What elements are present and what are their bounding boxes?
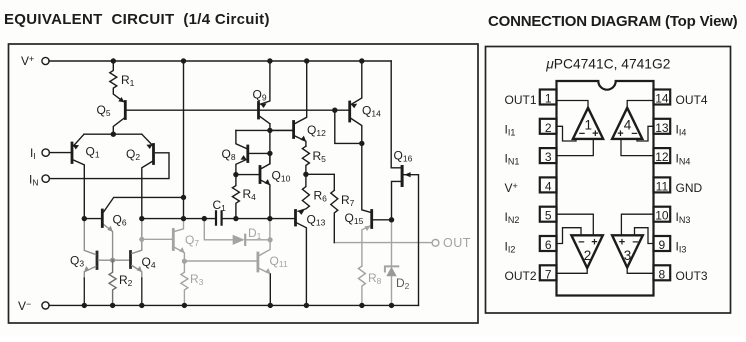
svg-text:R6: R6: [314, 189, 328, 204]
svg-text:OUT3: OUT3: [676, 269, 708, 283]
arrow Q8 emitter (into bar): [241, 155, 247, 160]
resistor R6: [298, 174, 309, 211]
svg-text:IN4: IN4: [676, 152, 691, 167]
svg-text:Q9: Q9: [253, 88, 267, 103]
transistor Q15 emitter (gray): [362, 226, 370, 266]
transistor Q8: [246, 146, 249, 162]
transistor Q10: [259, 167, 262, 183]
node dot D1 tap: [202, 216, 207, 221]
wire Q10 emitter node down: [269, 219, 271, 240]
wire amp1 output to pin1: [557, 101, 588, 108]
svg-text:Q6: Q6: [113, 213, 127, 228]
transistor Q4: [129, 252, 132, 268]
labels left panel: [18, 54, 413, 313]
wire Q15 base node to D2: [391, 220, 393, 267]
svg-text:10: 10: [655, 209, 669, 223]
right panel frame: [486, 47, 731, 314]
svg-text:+: +: [617, 128, 623, 140]
node dot Q8 base: [267, 151, 272, 156]
svg-text:V+: V+: [21, 54, 34, 68]
op-amp 4 triangle: [612, 108, 642, 139]
node dot Q10 emitter on main net: [267, 216, 272, 221]
wire Q11 emitter to rail: [269, 274, 271, 306]
transistor Q6: [101, 210, 104, 227]
wire pin13 to amp4 inverting: [637, 126, 654, 141]
svg-text:Q12: Q12: [307, 123, 326, 138]
svg-text:2: 2: [584, 248, 592, 263]
labels gray: [185, 226, 471, 287]
svg-text:II1: II1: [505, 122, 516, 137]
svg-text:14: 14: [655, 92, 669, 106]
svg-text:R4: R4: [243, 187, 257, 202]
node dot Q7 base tap: [139, 237, 144, 242]
title left: [4, 11, 270, 28]
svg-text:13: 13: [655, 121, 669, 135]
arrow Q9 emitter (into bar): [260, 103, 266, 108]
svg-text:II2: II2: [505, 240, 516, 255]
node dot A: [111, 132, 116, 137]
resistor R8: [358, 266, 365, 305]
transistor Q2: [152, 145, 155, 164]
node dot bias: [332, 108, 337, 113]
wire bias branch: [335, 110, 362, 143]
op-amp polarity signs: [578, 128, 638, 249]
pin 1 box: [540, 90, 557, 105]
wire Q3 emitter to rail: [83, 278, 85, 305]
svg-text:8: 8: [659, 267, 666, 281]
rail junction dots top: [111, 58, 116, 63]
svg-text:OUT2: OUT2: [505, 269, 537, 283]
svg-text:Q16: Q16: [394, 149, 413, 164]
node V- terminal: [42, 302, 49, 309]
resistor R2: [109, 260, 116, 305]
terminal OUT: [432, 239, 439, 246]
svg-text:IN2: IN2: [505, 210, 520, 225]
svg-text:4: 4: [545, 179, 552, 193]
svg-text:2: 2: [545, 121, 552, 135]
IC package body with notch: [557, 81, 654, 296]
svg-text:11: 11: [656, 179, 669, 193]
node dot Q3/Q4 base: [110, 258, 115, 263]
svg-text:−: −: [578, 237, 584, 249]
svg-text:GND: GND: [676, 181, 703, 195]
svg-text:3: 3: [624, 248, 632, 263]
wire pin12 to amp4 non-inverting: [621, 139, 654, 156]
wire pin2 to amp1 inverting: [557, 126, 576, 141]
transistor Q15: [370, 211, 373, 228]
medium-gray faded elements: [84, 220, 142, 305]
wire node A: [84, 133, 142, 135]
svg-text:V−: V−: [18, 299, 31, 313]
wire OUT line: [334, 242, 432, 244]
svg-text:Q4: Q4: [142, 255, 156, 270]
resistor R5: [302, 146, 309, 174]
svg-text:D1: D1: [248, 226, 262, 241]
pin 9 box: [654, 236, 671, 251]
rail junction dots bottom: [82, 303, 87, 308]
arrow Q5 emitter (into bar): [118, 97, 124, 102]
svg-text:OUT: OUT: [443, 236, 471, 250]
diode D1: [204, 219, 232, 240]
svg-text:+: +: [592, 128, 598, 140]
pin 2 box: [540, 119, 557, 134]
wire V+ to x183 column: [183, 61, 185, 219]
svg-text:−: −: [579, 128, 585, 140]
pin 7 box: [540, 265, 557, 280]
svg-text:1: 1: [585, 118, 593, 133]
node dot Q6 collector tap: [181, 195, 186, 200]
svg-text:Q13: Q13: [307, 213, 326, 228]
svg-text:OUT4: OUT4: [676, 93, 708, 107]
svg-text:V+: V+: [505, 181, 518, 195]
terminal IN input: [42, 175, 49, 182]
wire V+ rail: [49, 60, 391, 62]
arrow Q3 emitter (outward): [84, 266, 90, 272]
transistor Q13: [294, 211, 297, 226]
pin 13 box: [654, 119, 671, 134]
transistor Q1: [71, 143, 74, 163]
resistor R3: [181, 261, 188, 305]
svg-text:1: 1: [545, 92, 552, 106]
wire pin3 to amp1 non-inverting: [557, 139, 593, 156]
node V+ terminal: [42, 57, 49, 64]
svg-text:II3: II3: [676, 240, 687, 255]
wire second stage node: [236, 129, 292, 131]
pin labels: [505, 93, 708, 283]
resistor R4: [232, 175, 239, 219]
svg-text:OUT1: OUT1: [505, 93, 537, 107]
gray elements: [139, 219, 439, 306]
wire amp4 output to pin14: [627, 101, 653, 108]
svg-text:R2: R2: [119, 273, 133, 288]
wire pin6 to amp2 inverting: [557, 228, 581, 244]
wire pin9 to amp3 inverting: [635, 228, 654, 244]
op-amp 3 triangle: [612, 235, 643, 267]
svg-text:9: 9: [659, 238, 666, 252]
svg-text:Q10: Q10: [272, 169, 291, 184]
svg-text:CONNECTION DIAGRAM (Top View): CONNECTION DIAGRAM (Top View): [488, 13, 738, 30]
svg-text:12: 12: [655, 150, 669, 164]
transistor Q12: [292, 122, 295, 138]
resistor R7: [331, 190, 338, 242]
zener diode D2: [385, 266, 398, 271]
arrow Q14 emitter (into bar): [351, 104, 357, 109]
svg-text:Q11: Q11: [270, 254, 288, 269]
node dot x183 on main net: [181, 216, 186, 221]
node dot Q9 collector: [267, 128, 272, 133]
svg-text:5: 5: [545, 209, 552, 223]
wire IN to Q2 base: [49, 153, 169, 179]
arrow Q7 emitter (outward): [179, 247, 185, 253]
svg-text:Q8: Q8: [222, 147, 236, 162]
node dot Q15 base: [389, 217, 394, 222]
svg-text:+: +: [619, 237, 625, 249]
svg-text:EQUIVALENT CIRCUIT (1/4 Circ: EQUIVALENT CIRCUIT (1/4 Circuit): [4, 11, 270, 28]
node dot R4 bottom: [233, 216, 238, 221]
pin 11 box: [654, 177, 671, 192]
svg-text:R3: R3: [190, 272, 204, 287]
node dot D1 cathode / Q11 collector: [268, 237, 273, 242]
wire Q6 emitter: [104, 225, 113, 260]
svg-text:R8: R8: [368, 271, 382, 286]
svg-text:Q1: Q1: [86, 145, 100, 160]
node dot Q14 collector: [359, 141, 364, 146]
pin numbers: [545, 92, 669, 282]
transistor Q9: [257, 103, 260, 119]
svg-text:D2: D2: [396, 276, 410, 291]
wire x270 column: [269, 124, 271, 164]
svg-text:3: 3: [545, 150, 552, 164]
transistor Q14: [348, 102, 351, 121]
wire Q4 emitter to rail: [141, 278, 143, 305]
arrow Q6 emitter (outward): [107, 226, 113, 232]
svg-text:Q5: Q5: [97, 103, 111, 118]
svg-text:IN3: IN3: [676, 210, 691, 225]
pin 8 box: [654, 265, 671, 280]
left panel frame: [9, 44, 479, 323]
arrow Q11 emitter (outward): [265, 268, 271, 274]
wire main net: [142, 218, 216, 220]
op-amp 1 triangle: [573, 108, 603, 139]
svg-text:C1: C1: [213, 198, 227, 213]
transistor Q11: [256, 253, 259, 271]
svg-text:R5: R5: [313, 149, 327, 164]
resistor R1: [110, 61, 123, 102]
arrow Q15 emitter (into bar): [364, 226, 370, 232]
node dot R5/R6: [303, 172, 308, 177]
svg-text:Q15: Q15: [345, 211, 364, 226]
svg-text:Q7: Q7: [185, 233, 199, 248]
pin 10 box: [654, 207, 671, 222]
pin 12 box: [654, 148, 671, 163]
svg-text:Q3: Q3: [70, 254, 84, 269]
wire V- rail: [49, 304, 419, 306]
svg-text:IN1: IN1: [505, 152, 520, 167]
wire amp2 output to pin7: [557, 268, 587, 273]
svg-text:II: II: [30, 146, 36, 161]
arrow R6/Q13 emitter (into bar): [298, 210, 304, 215]
op-amp numbers: [584, 118, 632, 264]
svg-text:7: 7: [545, 267, 552, 281]
wire pin10 to amp3 non-inverting: [621, 214, 653, 235]
arrow Q10 emitter (outward): [265, 179, 271, 185]
svg-text:−: −: [632, 237, 638, 249]
node dot Q1-collector/Q6-base: [82, 216, 87, 221]
svg-text:+: +: [591, 237, 597, 249]
pin 6 box: [540, 236, 557, 251]
arrow Q16 base (into bar): [404, 172, 410, 177]
wire pin5 to amp2 non-inverting: [557, 214, 593, 235]
svg-text:R7: R7: [341, 193, 355, 208]
transistor Q7: [172, 230, 175, 250]
svg-text:μPC4741C, 4741G2: μPC4741C, 4741G2: [545, 57, 670, 72]
svg-text:IN: IN: [29, 173, 38, 188]
terminal II input: [42, 149, 49, 156]
arrows gray: [179, 226, 371, 275]
op-amp 2 triangle: [571, 235, 602, 268]
arrow Q2 emitter (into bar): [146, 144, 152, 149]
svg-text:R1: R1: [121, 73, 135, 88]
node dot Q7 emitter / R3 / Q11 base: [182, 259, 187, 264]
svg-text:Q2: Q2: [126, 147, 140, 162]
wire amp3 output to pin8: [627, 268, 653, 274]
arrow Q4 emitter (outward): [137, 266, 143, 272]
node dot R4 top / Q10 base: [233, 172, 238, 177]
svg-text:−: −: [631, 128, 637, 140]
arrow Q1 emitter (into bar): [73, 145, 79, 150]
wire R5R6 to R7: [306, 174, 334, 190]
arrows black: [73, 97, 411, 215]
pin 3 box: [540, 148, 557, 163]
svg-text:6: 6: [545, 238, 552, 252]
arrow Q12 emitter (outward): [301, 136, 307, 142]
pin 14 box: [654, 90, 671, 105]
transistor Q16: [401, 167, 404, 186]
transistor Q5: [124, 102, 127, 119]
title right: [488, 13, 738, 30]
wire Q11 base: [184, 260, 256, 262]
pin 4 box: [540, 177, 557, 192]
svg-text:Q14: Q14: [362, 104, 381, 119]
pin 5 box: [540, 207, 557, 222]
capacitor C1: [216, 211, 222, 224]
transistor Q3: [96, 252, 99, 269]
svg-text:II4: II4: [676, 122, 687, 137]
node dot main net left: [139, 216, 144, 221]
